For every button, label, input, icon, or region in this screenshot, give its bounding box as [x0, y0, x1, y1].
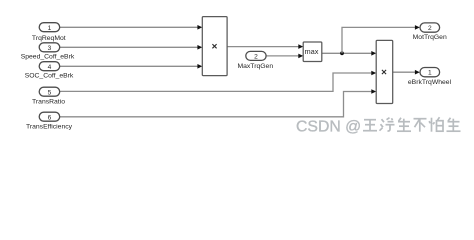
wire from inport 5 TransRatio to product U3 input 2	[59, 71, 376, 92]
outport 1	[420, 68, 440, 77]
svg-text:2: 2	[428, 25, 432, 32]
label MotTrqGen	[413, 34, 447, 41]
glyph sheng2	[447, 118, 461, 132]
svg-text:1: 1	[428, 70, 432, 77]
glyph sheng	[397, 118, 411, 132]
inport 6	[39, 112, 60, 121]
label Speed_Coff_eBrk	[21, 53, 75, 60]
svg-text:Speed_Coff_eBrk: Speed_Coff_eBrk	[21, 53, 75, 60]
glyph wang	[363, 120, 377, 131]
label TrqReqMot	[32, 35, 66, 42]
glyph bu	[414, 119, 427, 132]
svg-text:6: 6	[48, 114, 52, 121]
svg-text:TrqReqMot: TrqReqMot	[32, 35, 66, 42]
label TransEfficiency	[26, 124, 73, 131]
svg-text:TransRatio: TransRatio	[32, 99, 65, 106]
inport 1	[39, 23, 60, 32]
wire from inport 1 to product U1	[59, 25, 202, 30]
svg-text:eBrkTrqWheel: eBrkTrqWheel	[408, 79, 452, 86]
inport 4	[39, 62, 60, 71]
outport 2	[420, 23, 440, 32]
wire from inport 6 TransEfficiency to product U3 input 3	[59, 89, 376, 117]
svg-text:3: 3	[48, 45, 52, 52]
svg-text:CSDN @: CSDN @	[296, 118, 361, 135]
svg-text:max: max	[305, 47, 319, 56]
wire from product U3 output to outport 1	[393, 70, 420, 75]
inport 3	[39, 43, 60, 52]
svg-text:2: 2	[254, 54, 258, 61]
wire from inport 2 MaxTrqGen to max U2 input 2	[266, 54, 303, 59]
wire from inport 3 to product U1	[59, 45, 202, 50]
product block U3	[376, 40, 393, 103]
label MaxTrqGen	[237, 63, 273, 70]
watermark CJK glyphs (hand-drawn strokes)	[363, 117, 461, 132]
watermark CSDN	[296, 118, 361, 135]
svg-text:SOC_Coff_eBrk: SOC_Coff_eBrk	[25, 73, 74, 80]
product block U1	[202, 17, 227, 76]
svg-text:5: 5	[48, 89, 52, 96]
max block U2	[303, 42, 322, 62]
label eBrkTrqWheel	[408, 79, 452, 86]
glyph fu	[380, 118, 395, 131]
branch wire from junction up to outport 2	[342, 25, 420, 53]
svg-text:1: 1	[48, 25, 52, 32]
svg-text:MaxTrqGen: MaxTrqGen	[237, 63, 273, 70]
inport 5	[39, 87, 60, 96]
svg-text:4: 4	[48, 64, 52, 71]
wire from inport 4 to product U1	[59, 64, 202, 69]
glyph pa	[429, 117, 443, 132]
wire from product U1 output to max U2 input 1	[227, 44, 303, 49]
label TransRatio	[32, 99, 65, 106]
inport 2 MaxTrqGen	[246, 51, 266, 60]
wire from max U2 output to product U3 input 1	[322, 51, 376, 56]
svg-text:MotTrqGen: MotTrqGen	[413, 34, 447, 41]
junction dot on max output net	[340, 51, 344, 55]
label SOC_Coff_eBrk	[25, 73, 74, 80]
svg-text:TransEfficiency: TransEfficiency	[26, 124, 73, 131]
